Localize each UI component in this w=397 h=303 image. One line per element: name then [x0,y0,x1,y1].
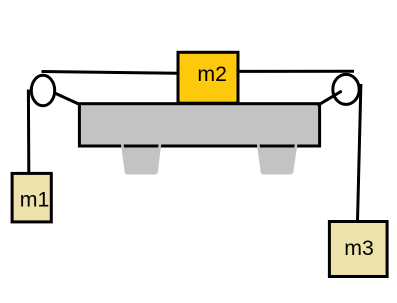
leg notch left-left [122,144,126,173]
mass m2 box [178,52,238,103]
table leg right [257,145,297,175]
mass m1 box [12,173,51,222]
pulley left [31,75,54,105]
svg-text:m3: m3 [344,236,374,260]
table leg left [122,145,161,175]
mass m3 box [329,222,387,277]
leg notch right-left [258,144,262,173]
string right diagonal [319,92,341,105]
leg notch right-right [292,144,296,173]
table top [79,104,319,146]
string right vertical [358,84,361,221]
string left diagonal [55,93,80,104]
string left vertical [27,90,30,174]
svg-text:m1: m1 [20,187,50,211]
string top-right [238,70,354,73]
svg-text:m2: m2 [197,62,227,86]
string top-left [42,72,179,74]
pulley right [333,74,359,104]
leg notch left-right [156,144,160,173]
